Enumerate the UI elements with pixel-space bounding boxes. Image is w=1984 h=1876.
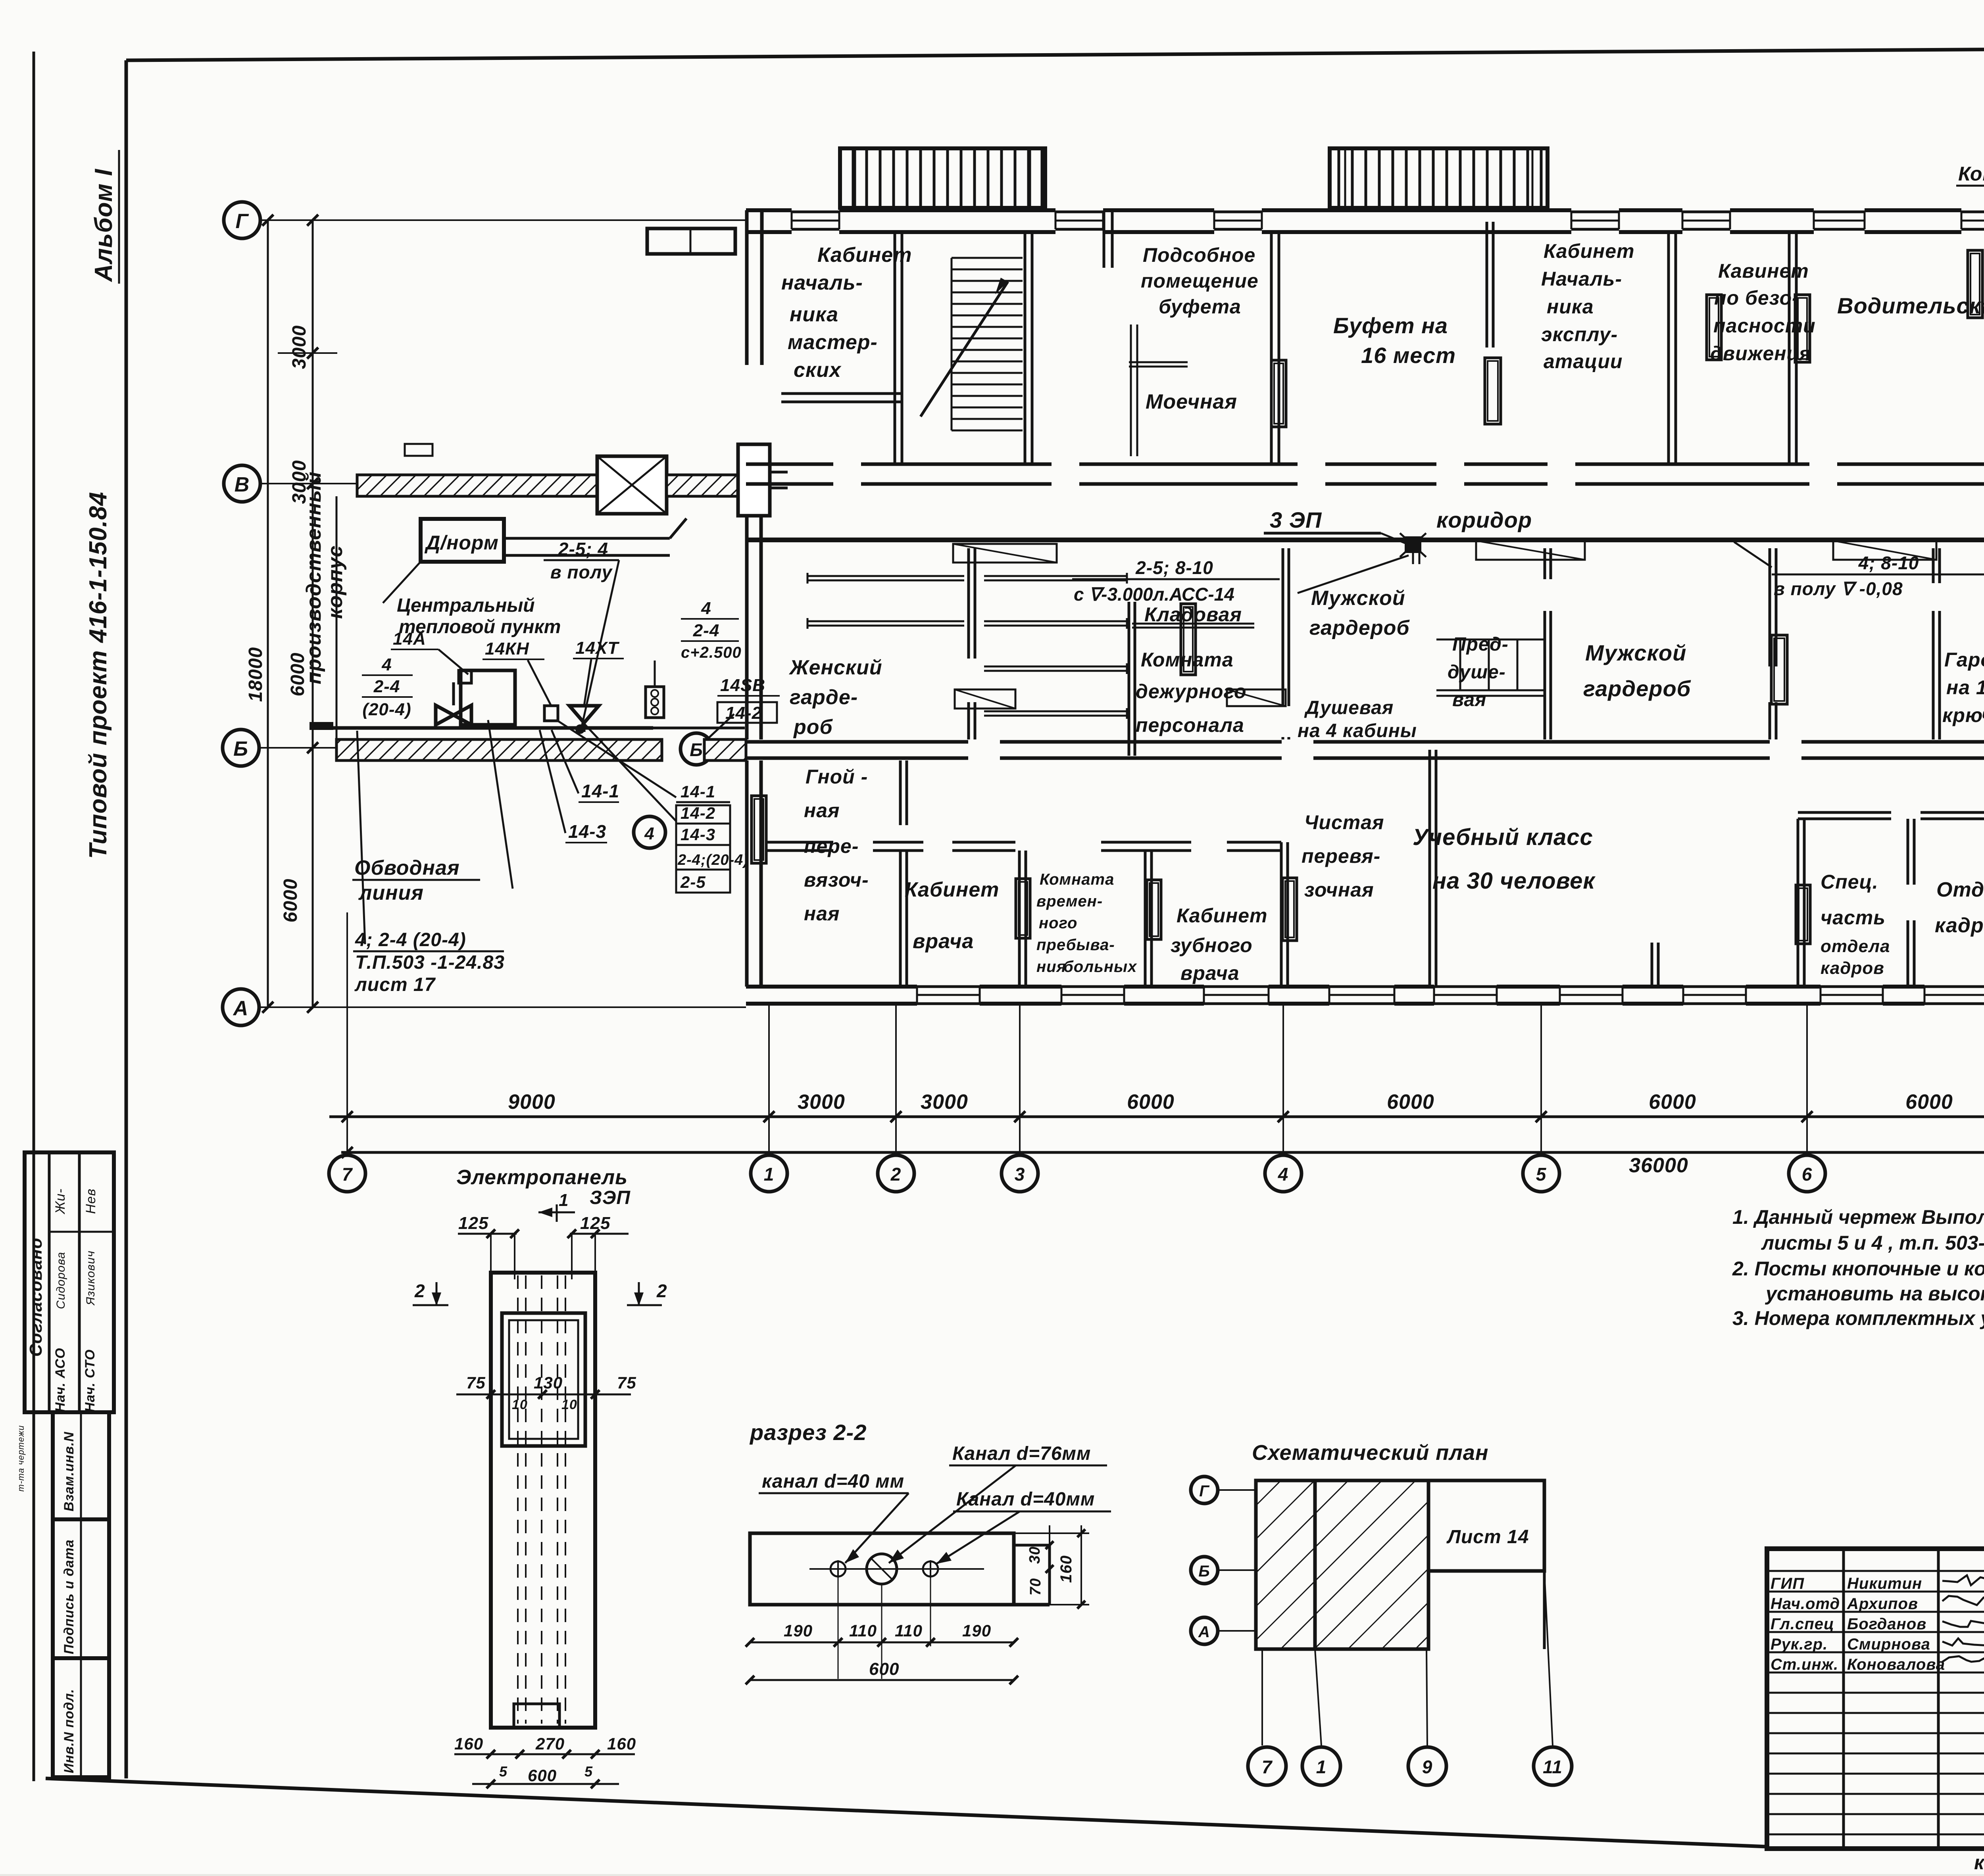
svg-text:В: В bbox=[235, 473, 250, 496]
panel dim line b2 bbox=[472, 1783, 619, 1785]
porch 2 inner line bbox=[1344, 148, 1346, 208]
stair treads bbox=[952, 257, 1023, 259]
radiator 2569 bbox=[1016, 879, 1030, 938]
svg-text:11: 11 bbox=[1543, 1757, 1563, 1777]
drawing frame bottom under title bbox=[1767, 1847, 1984, 1851]
svg-text:Комната: Комната bbox=[1040, 871, 1114, 888]
svg-text:Смирнова: Смирнова bbox=[1847, 1636, 1930, 1653]
svg-text:больных: больных bbox=[1063, 958, 1137, 975]
schematic leader 9 bbox=[1426, 1649, 1427, 1745]
svg-text:2-4: 2-4 bbox=[373, 677, 400, 696]
bottom dim line 1 bbox=[329, 1116, 1984, 1118]
svg-text:3: 3 bbox=[1015, 1164, 1025, 1185]
radiator bezop bbox=[1707, 295, 1721, 360]
schematic box right bottom line bbox=[1428, 1570, 1544, 1573]
svg-text:гардероб: гардероб bbox=[1583, 676, 1691, 701]
svg-text:Мужской: Мужской bbox=[1311, 587, 1405, 610]
closet symbol corridor 3 bbox=[1833, 541, 1936, 560]
svg-text:Канал d=40мм: Канал d=40мм bbox=[956, 1489, 1095, 1510]
drawing frame bottom border bbox=[46, 1778, 1767, 1847]
corridor top wall bbox=[746, 463, 833, 466]
svg-text:лист 17: лист 17 bbox=[354, 974, 436, 995]
radiator 3229 bbox=[1282, 878, 1297, 941]
junction stub wall bbox=[1412, 542, 1414, 564]
svg-text:ная: ная bbox=[804, 799, 840, 822]
svg-text:5: 5 bbox=[584, 1763, 593, 1780]
svg-text:36000: 36000 bbox=[1629, 1154, 1688, 1177]
svg-text:3000: 3000 bbox=[798, 1091, 845, 1114]
svg-text:Т.П.503 -1-24.83: Т.П.503 -1-24.83 bbox=[355, 952, 505, 973]
stamp col line 1 bbox=[48, 1152, 51, 1412]
section bar right ext bbox=[1014, 1544, 1050, 1547]
svg-text:крючков: крючков bbox=[1942, 704, 1984, 726]
valve riser bbox=[452, 682, 455, 705]
top-left block bottom wall bbox=[781, 392, 903, 395]
svg-text:врача: врача bbox=[1180, 962, 1240, 984]
svg-text:14-2: 14-2 bbox=[681, 804, 715, 822]
stamp box vzam inv bbox=[53, 1412, 109, 1519]
section bar bbox=[750, 1533, 1014, 1605]
wall muzhskoy1 left bbox=[1282, 548, 1284, 706]
svg-text:линия: линия bbox=[358, 881, 424, 904]
svg-text:на 4 кабины: на 4 кабины bbox=[1298, 720, 1417, 741]
svg-text:Типовой проект 416-1-150.84: Типовой проект 416-1-150.84 bbox=[85, 492, 112, 859]
porch 2 hatched bbox=[1330, 148, 1548, 208]
radiator 4460 bbox=[1771, 635, 1787, 704]
panel dim 75-130-75 bbox=[456, 1394, 631, 1396]
svg-text:гардероб: гардероб bbox=[1309, 616, 1410, 639]
svg-text:отдела: отдела bbox=[1821, 937, 1890, 956]
svg-text:Сидорова: Сидорова bbox=[54, 1252, 67, 1309]
sidebar underline Album bbox=[118, 150, 120, 284]
svg-text:атации: атации bbox=[1544, 350, 1623, 373]
section leader 76 bbox=[889, 1465, 1016, 1563]
svg-text:Нач. СТО: Нач. СТО bbox=[83, 1349, 98, 1412]
wall kabnach-bezop bbox=[1667, 232, 1670, 464]
label tp503 underline bbox=[353, 950, 504, 952]
svg-text:16 мест: 16 мест bbox=[1361, 343, 1456, 368]
svg-text:14-2: 14-2 bbox=[725, 703, 762, 723]
corridor bottom wall bbox=[746, 538, 1984, 542]
svg-text:Подсобное: Подсобное bbox=[1143, 244, 1255, 266]
svg-text:2: 2 bbox=[890, 1164, 902, 1185]
svg-text:2-4;(20-4): 2-4;(20-4) bbox=[677, 852, 749, 868]
svg-text:190: 190 bbox=[784, 1621, 813, 1640]
porch 1 hatched bbox=[840, 148, 1045, 208]
funnel symbol bbox=[569, 706, 599, 723]
valve2 box bbox=[544, 706, 558, 721]
svg-text:ника: ника bbox=[790, 303, 838, 326]
svg-text:Б: Б bbox=[690, 739, 703, 760]
svg-text:Нач. АСО: Нач. АСО bbox=[53, 1348, 68, 1412]
left dim tick A bbox=[307, 1002, 318, 1013]
section leader 40R bbox=[936, 1511, 1020, 1564]
svg-text:Рук.гр.: Рук.гр. bbox=[1771, 1636, 1828, 1653]
svg-text:Согласовано: Согласовано bbox=[26, 1238, 46, 1357]
leader to tp503 bbox=[357, 731, 365, 944]
svg-text:3000: 3000 bbox=[921, 1091, 968, 1114]
svg-text:Чистая: Чистая bbox=[1304, 811, 1384, 833]
svg-text:Кабинет: Кабинет bbox=[817, 244, 912, 267]
spec top wall bbox=[1798, 811, 1891, 814]
schematic circle 9 bbox=[1408, 1747, 1446, 1785]
section vdim 160 bbox=[1080, 1533, 1082, 1605]
svg-text:на 30 человек: на 30 человек bbox=[1432, 868, 1596, 894]
svg-text:190: 190 bbox=[962, 1621, 991, 1640]
panel inner dashed channels bbox=[517, 1275, 519, 1724]
junction box corridor bbox=[1405, 536, 1421, 553]
svg-text:5: 5 bbox=[499, 1763, 508, 1780]
top wall windows bbox=[792, 211, 839, 213]
svg-text:14КН: 14КН bbox=[485, 639, 529, 659]
svg-text:160: 160 bbox=[454, 1734, 483, 1753]
wall moechnaya-bufet bbox=[1270, 232, 1273, 464]
svg-text:3. Номера комплектных узлов: 3. Номера комплектных узлов даны на лист… bbox=[1732, 1307, 1984, 1329]
svg-text:18000: 18000 bbox=[245, 647, 266, 702]
axis circle A bbox=[223, 989, 259, 1025]
svg-text:6000: 6000 bbox=[280, 879, 301, 923]
svg-text:1: 1 bbox=[559, 1191, 569, 1210]
svg-text:10: 10 bbox=[561, 1397, 577, 1412]
wall 3603 bbox=[1428, 750, 1431, 987]
svg-text:по безо-: по безо- bbox=[1714, 287, 1799, 309]
svg-text:14ХТ: 14ХТ bbox=[575, 638, 619, 658]
svg-text:кадров: кадров bbox=[1935, 914, 1984, 937]
svg-text:персонала: персонала bbox=[1136, 714, 1244, 736]
link wall V hatched left bbox=[357, 475, 597, 496]
svg-text:врача: врача bbox=[913, 930, 974, 953]
axis line B bbox=[259, 747, 336, 749]
svg-text:Нач.отд: Нач.отд bbox=[1771, 1595, 1840, 1613]
grid circles bbox=[329, 1155, 365, 1192]
left outer wall upper bbox=[745, 210, 749, 365]
radiator 2886 bbox=[1147, 880, 1161, 939]
B wall inside building bbox=[746, 740, 968, 744]
schematic circle 1 bbox=[1302, 1747, 1340, 1785]
section circle big bbox=[867, 1554, 897, 1584]
wardrobe racks A bbox=[807, 575, 964, 577]
svg-text:2-4: 2-4 bbox=[693, 621, 720, 640]
svg-text:1: 1 bbox=[764, 1164, 775, 1185]
svg-text:душе-: душе- bbox=[1448, 662, 1506, 683]
schematic circle 11 bbox=[1534, 1747, 1572, 1785]
axis line V bbox=[260, 483, 359, 484]
leader 4 8-10 bbox=[1734, 542, 1772, 567]
svg-text:Архипов: Архипов bbox=[1847, 1595, 1918, 1613]
schematic axis G bbox=[1191, 1477, 1218, 1503]
stamp table soglasovano box bbox=[25, 1152, 114, 1412]
drawing frame left border bbox=[125, 60, 128, 1778]
svg-text:Душевая: Душевая bbox=[1304, 697, 1394, 718]
svg-text:Учебный класс: Учебный класс bbox=[1413, 824, 1593, 850]
wardrobe racks B bbox=[984, 575, 1127, 577]
svg-text:ная: ная bbox=[804, 902, 840, 925]
svg-text:10: 10 bbox=[512, 1397, 528, 1412]
panel bottom notch bbox=[514, 1704, 559, 1728]
svg-text:4: 4 bbox=[1278, 1164, 1289, 1185]
link wall V small door bbox=[405, 444, 433, 456]
wall gnoynaya right bbox=[899, 760, 902, 825]
wall 4531 bbox=[1797, 819, 1799, 987]
stamp podpis divider bbox=[80, 1519, 82, 1658]
stamp row line a bbox=[49, 1231, 114, 1233]
svg-text:Схематический план: Схематический план bbox=[1252, 1441, 1488, 1465]
stamp box podpis bbox=[53, 1519, 109, 1658]
leader stack b bbox=[583, 723, 676, 821]
axis circle B2 at heatpoint bbox=[681, 733, 712, 765]
svg-text:на 120: на 120 bbox=[1946, 676, 1984, 699]
kladovaya partition h bbox=[1132, 623, 1254, 625]
left outer wall pilaster bbox=[738, 444, 770, 516]
schematic box hatched 1 bbox=[1256, 1480, 1315, 1649]
svg-text:6: 6 bbox=[1802, 1164, 1813, 1185]
svg-text:Альбом I: Альбом I bbox=[90, 168, 117, 282]
schematic leader 7 bbox=[1261, 1649, 1263, 1745]
bottom dim line 2 bbox=[341, 1151, 1984, 1154]
svg-text:Гардероб: Гардероб bbox=[1944, 649, 1984, 671]
svg-text:Комната дежурного: Комната дежурного bbox=[1958, 163, 1984, 185]
left wall radiator bbox=[752, 796, 766, 863]
title block signatures bbox=[1942, 1575, 1984, 1585]
panel outline bbox=[491, 1273, 595, 1728]
svg-text:дежурного: дежурного bbox=[1136, 680, 1247, 703]
svg-text:125: 125 bbox=[580, 1214, 610, 1233]
wall stub 4163 bbox=[1651, 943, 1653, 985]
svg-text:14-3: 14-3 bbox=[681, 825, 715, 844]
svg-text:Г: Г bbox=[236, 210, 249, 233]
svg-text:буфета: буфета bbox=[1159, 296, 1241, 318]
svg-text:мастер-: мастер- bbox=[788, 331, 878, 354]
radiator 4531 bbox=[1796, 885, 1810, 944]
svg-text:в полу: в полу bbox=[550, 562, 613, 582]
svg-text:14-1: 14-1 bbox=[581, 781, 619, 801]
svg-text:А: А bbox=[1198, 1623, 1210, 1641]
section dim row2 bbox=[750, 1679, 1014, 1681]
left dim chain inner bbox=[312, 220, 314, 1007]
svg-text:7: 7 bbox=[1262, 1757, 1273, 1777]
wall garderob120 left bbox=[1932, 548, 1935, 583]
svg-text:75: 75 bbox=[617, 1373, 636, 1392]
axis line G bbox=[260, 219, 746, 221]
svg-text:Нев: Нев bbox=[83, 1189, 98, 1214]
bottom outer wall bbox=[746, 985, 917, 989]
svg-text:т-та чертежи: т-та чертежи bbox=[16, 1425, 26, 1492]
stair arrow bbox=[921, 282, 1008, 417]
svg-text:30: 30 bbox=[1027, 1546, 1043, 1564]
svg-text:Д/норм: Д/норм bbox=[424, 532, 499, 554]
wall 2569 bbox=[1018, 851, 1021, 987]
stack l2 underline bbox=[362, 696, 413, 698]
svg-text:пере-: пере- bbox=[804, 835, 859, 857]
svg-text:6000: 6000 bbox=[1649, 1091, 1696, 1114]
svg-text:2: 2 bbox=[656, 1281, 667, 1301]
svg-text:Кабинет: Кабинет bbox=[1177, 904, 1268, 927]
shower cabins bbox=[1436, 689, 1544, 691]
stamp box inv podl bbox=[53, 1658, 109, 1777]
svg-text:9000: 9000 bbox=[508, 1091, 556, 1114]
svg-text:перевя-: перевя- bbox=[1302, 845, 1380, 867]
svg-text:часть: часть bbox=[1821, 906, 1886, 929]
svg-text:1. Данный чертеж Выполнен на: 1. Данный чертеж Выполнен на основании с… bbox=[1732, 1206, 1984, 1228]
svg-text:160: 160 bbox=[607, 1734, 636, 1753]
svg-text:коридор: коридор bbox=[1436, 507, 1532, 532]
left dim outer tick A bbox=[262, 1002, 273, 1013]
wall kladovaya left bbox=[1128, 602, 1130, 756]
svg-text:125: 125 bbox=[458, 1214, 488, 1233]
svg-text:6000: 6000 bbox=[1127, 1091, 1175, 1114]
schematic axis A bbox=[1191, 1617, 1218, 1644]
svg-text:Коновалова: Коновалова bbox=[1847, 1656, 1945, 1673]
section ext lines bbox=[838, 1578, 839, 1679]
wall muzhskoy2 left bbox=[1544, 548, 1546, 579]
svg-text:1: 1 bbox=[1316, 1757, 1327, 1777]
schematic circle 7 bbox=[1248, 1747, 1286, 1785]
svg-text:14-1: 14-1 bbox=[681, 782, 715, 801]
svg-text:Канал d=76мм: Канал d=76мм bbox=[952, 1443, 1091, 1464]
leader to obvodnaya bbox=[488, 720, 513, 889]
svg-text:Мужской: Мужской bbox=[1585, 640, 1686, 665]
pipe into building bbox=[653, 727, 745, 730]
panel ext lines bbox=[490, 1234, 492, 1273]
svg-text:Водительская: Водительская bbox=[1837, 293, 1984, 318]
svg-text:14-3: 14-3 bbox=[568, 821, 606, 842]
page left edge line bbox=[33, 52, 35, 1781]
drawing frame top border bbox=[126, 46, 1984, 60]
valve2 riser bbox=[528, 660, 551, 706]
left dim chain outer bbox=[267, 220, 269, 1007]
wall 2886 bbox=[1144, 851, 1147, 987]
axis circle B bbox=[223, 730, 259, 766]
leader 3 EP bbox=[1381, 533, 1408, 544]
title block left columns bbox=[1842, 1549, 1845, 1849]
svg-text:зочная: зочная bbox=[1304, 879, 1374, 901]
svg-text:9: 9 bbox=[1422, 1757, 1433, 1777]
left outer wall mid bbox=[745, 516, 749, 739]
pipe main bbox=[331, 726, 653, 730]
svg-text:Лист 14: Лист 14 bbox=[1446, 1527, 1529, 1548]
boiler box bbox=[461, 670, 515, 725]
svg-text:5: 5 bbox=[1536, 1164, 1547, 1185]
svg-text:3000: 3000 bbox=[289, 325, 310, 369]
svg-text:7: 7 bbox=[342, 1164, 353, 1185]
svg-text:вая: вая bbox=[1452, 689, 1486, 710]
svg-text:ЗЭП: ЗЭП bbox=[590, 1187, 631, 1208]
svg-text:Подпись и дата: Подпись и дата bbox=[62, 1539, 77, 1654]
label 14XT underline bbox=[573, 658, 624, 659]
svg-text:Богданов: Богданов bbox=[1847, 1615, 1926, 1633]
label 14KN underline bbox=[483, 659, 544, 660]
svg-text:Женский: Женский bbox=[788, 656, 882, 679]
svg-text:600: 600 bbox=[528, 1766, 557, 1785]
leader junction down bbox=[1298, 555, 1409, 593]
left dim tick B bbox=[307, 742, 318, 753]
svg-text:разрез 2-2: разрез 2-2 bbox=[749, 1420, 867, 1445]
svg-text:110: 110 bbox=[849, 1621, 877, 1640]
svg-text:гарде-: гарде- bbox=[790, 686, 858, 709]
stair left wall bbox=[894, 232, 896, 464]
axis line A bbox=[259, 1006, 746, 1008]
svg-text:Гной -: Гной - bbox=[806, 766, 868, 788]
svg-text:ного: ного bbox=[1039, 914, 1077, 932]
dnorm box bbox=[421, 519, 504, 562]
svg-text:6000: 6000 bbox=[1905, 1091, 1953, 1114]
panel window box bbox=[502, 1313, 585, 1446]
svg-text:Комната: Комната bbox=[1141, 649, 1234, 671]
svg-text:2: 2 bbox=[414, 1281, 425, 1301]
svg-text:установить на высоте 1.4м.: установить на высоте 1.4м. bbox=[1765, 1283, 1984, 1305]
stair right wall bbox=[1024, 232, 1027, 464]
svg-text:Началь-: Началь- bbox=[1541, 268, 1622, 290]
section leader 40L bbox=[845, 1493, 909, 1563]
schematic leader 11 bbox=[1544, 1571, 1553, 1745]
section vdim 30-70 bbox=[1049, 1533, 1050, 1605]
section vdim link bbox=[1014, 1532, 1089, 1534]
closet symbol corridor 1 bbox=[953, 544, 1057, 563]
leader stack a bbox=[557, 720, 676, 797]
svg-text:160: 160 bbox=[1057, 1555, 1075, 1583]
wall zhensky right bbox=[967, 548, 970, 659]
stamp col line 2 bbox=[78, 1152, 81, 1412]
svg-text:Инв.N подл.: Инв.N подл. bbox=[62, 1689, 77, 1773]
svg-text:канал d=40 мм: канал d=40 мм bbox=[762, 1471, 904, 1492]
valve square bbox=[459, 670, 471, 683]
schematic box hatched 2 bbox=[1315, 1480, 1428, 1649]
funnel riser bbox=[584, 659, 591, 706]
svg-text:ника: ника bbox=[1547, 296, 1594, 318]
svg-text:Жи-: Жи- bbox=[53, 1189, 68, 1215]
svg-text:зубного: зубного bbox=[1171, 934, 1253, 956]
svg-text:2-5: 2-5 bbox=[680, 873, 706, 891]
svg-text:Спец.: Спец. bbox=[1821, 871, 1878, 893]
svg-text:Центральный: Центральный bbox=[397, 595, 535, 616]
svg-text:Ст.инж.: Ст.инж. bbox=[1771, 1656, 1838, 1673]
svg-text:Взам.инв.N: Взам.инв.N bbox=[62, 1431, 77, 1511]
svg-text:4: 4 bbox=[644, 824, 654, 843]
svg-text:ния: ния bbox=[1036, 958, 1066, 975]
svg-text:70: 70 bbox=[1027, 1578, 1044, 1596]
left dim outer tick G bbox=[262, 215, 273, 226]
schematic axis B bbox=[1191, 1557, 1218, 1584]
svg-text:(20-4): (20-4) bbox=[362, 700, 411, 719]
section dim row1 bbox=[750, 1642, 1014, 1644]
label obvodnaya underline bbox=[352, 879, 480, 881]
axis circle V bbox=[224, 465, 260, 502]
closet symbol corridor 2 bbox=[1476, 541, 1585, 560]
underline 3 EP bbox=[1264, 532, 1381, 535]
heat duct channel bbox=[505, 537, 670, 540]
svg-text:с ∇-3.000л.АСС-14: с ∇-3.000л.АСС-14 bbox=[1074, 584, 1234, 605]
svg-text:Гл.спец: Гл.спец bbox=[1771, 1615, 1834, 1633]
svg-text:Г: Г bbox=[1199, 1482, 1210, 1500]
svg-text:4; 2-4 (20-4): 4; 2-4 (20-4) bbox=[355, 929, 466, 950]
svg-text:помещение: помещение bbox=[1141, 270, 1259, 292]
radiator bufet left bbox=[1271, 360, 1286, 427]
svg-text:600: 600 bbox=[869, 1659, 899, 1679]
svg-text:ГИП: ГИП bbox=[1771, 1575, 1804, 1592]
svg-text:в полу ∇ -0,08: в полу ∇ -0,08 bbox=[1774, 578, 1903, 599]
west porch bbox=[647, 228, 735, 254]
svg-text:14А: 14А bbox=[393, 629, 426, 649]
pipe stub hatched bbox=[310, 722, 333, 730]
eq small box bbox=[646, 687, 664, 718]
stack l1 underline bbox=[362, 674, 413, 676]
svg-text:времен-: времен- bbox=[1036, 893, 1103, 910]
dnorm leader bbox=[383, 562, 421, 603]
radiator kladovaya bbox=[1181, 604, 1196, 675]
svg-text:Электропанель: Электропанель bbox=[456, 1166, 628, 1189]
link wall V hatched right bbox=[667, 475, 746, 496]
stamp vzam divider bbox=[80, 1412, 82, 1519]
